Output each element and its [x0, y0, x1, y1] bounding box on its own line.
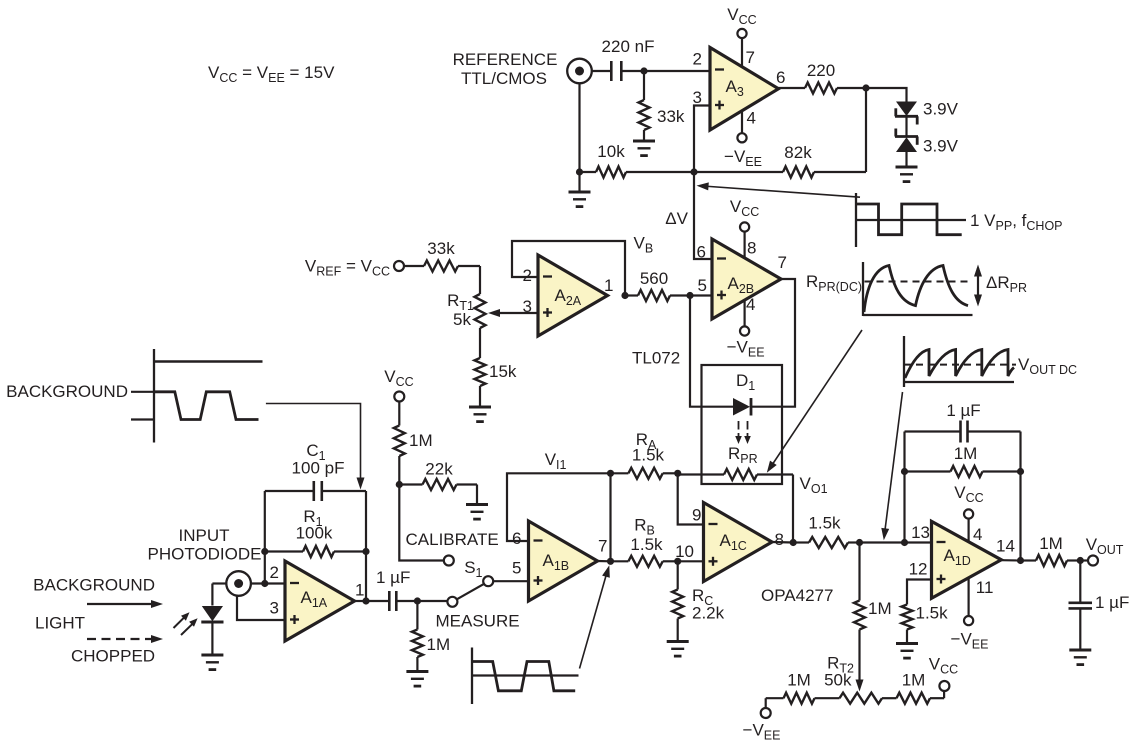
wire to A1D pin13 node [860, 541, 905, 543]
label D_1 [736, 371, 755, 393]
op-amp A3 [693, 48, 786, 131]
ground (below 1.5k) [896, 644, 918, 659]
node R_B / R_C / A1C pin10 [674, 558, 681, 565]
waveform: chopper square wave [856, 193, 966, 247]
svg-text:7: 7 [778, 253, 787, 272]
node V_OUT [1077, 557, 1084, 564]
capacitor 220 nF [602, 37, 655, 81]
svg-text:1.5k: 1.5k [632, 446, 665, 465]
svg-text:9: 9 [692, 506, 701, 525]
label V_O1 [800, 474, 828, 496]
switch S1 [457, 558, 494, 599]
svg-text:BACKGROUND: BACKGROUND [6, 382, 128, 401]
capacitor 1uF (output filter) [1069, 561, 1130, 651]
wire BNC to A1A pin2 [251, 582, 285, 584]
resistor R_C 2.2k [672, 561, 724, 641]
svg-text:MEASURE: MEASURE [436, 612, 520, 631]
node R1 left [261, 548, 268, 555]
node 1uF/1M/measure [414, 597, 421, 604]
wire to V_OUT terminal [1080, 559, 1088, 561]
potentiometer R_T1 5k [447, 266, 538, 329]
capacitor C1 [265, 481, 366, 501]
wire R_PR to V_O1 node [792, 475, 794, 543]
svg-text:8: 8 [747, 239, 756, 258]
node A1C output / V_O1 [790, 539, 797, 546]
note: supply voltages text V_CC = V_EE = 15V [208, 63, 335, 85]
node feedback left [901, 468, 908, 475]
resistor 220 (A3 output) [779, 61, 867, 94]
arrow delta R_PR (double headed) [974, 265, 982, 307]
A3 V_CC pin 7 terminal [727, 5, 756, 67]
resistor 82k (feedback) [694, 88, 866, 178]
node R_A / R_PR / A1C pin9 [674, 470, 681, 477]
ground (below 15k) [469, 407, 491, 422]
label INPUT PHOTODIODE [148, 526, 262, 564]
svg-text:10: 10 [675, 542, 694, 561]
wire between zeners [905, 116, 907, 136]
wire A2B output to D1 cathode [752, 279, 796, 407]
node 560/A2B pin5/D1 [686, 292, 693, 299]
resistor 1M (R_T2 to V_CC) [882, 671, 944, 704]
node feedback right [1017, 468, 1024, 475]
svg-text:4: 4 [746, 295, 755, 314]
node A1D output [1017, 557, 1024, 564]
terminal V_REF [394, 261, 404, 271]
svg-text:5k: 5k [453, 310, 471, 329]
svg-text:ΔV: ΔV [665, 209, 688, 228]
resistor 1M (V_CC to divider) [394, 402, 433, 485]
wire A1A pin3 to BNC shield [237, 596, 285, 620]
wire V_I1 (A1B pin6 feedback top) [507, 473, 611, 541]
light arrows from D1 to R_PR [735, 421, 751, 444]
terminal V_OUT [1088, 556, 1098, 566]
op-amp A1B [512, 521, 607, 601]
svg-text:3: 3 [693, 88, 702, 107]
label R_PR(DC) [806, 272, 862, 294]
svg-text:1M: 1M [787, 671, 811, 690]
ground (below R_C) [667, 642, 689, 657]
optocoupler box (D1 + R_PR) [702, 365, 783, 484]
svg-text:TTL/CMOS: TTL/CMOS [461, 69, 547, 88]
A2B -V_EE pin 4 terminal [727, 300, 765, 360]
svg-text:INPUT: INPUT [179, 526, 230, 545]
label REFERENCE TTL/CMOS [453, 50, 558, 88]
svg-text:1 µF: 1 µF [946, 401, 980, 420]
arrow background light [87, 600, 163, 608]
A3 -V_EE pin 4 terminal [724, 111, 762, 170]
node 220/82k/zeners [862, 84, 869, 91]
arrow chopped light (dashed) [87, 635, 163, 643]
svg-text:100 pF: 100 pF [292, 459, 345, 478]
light arrows into photodiode [174, 612, 198, 635]
wire S1 to A1B pin5 [493, 580, 528, 582]
svg-text:15k: 15k [489, 362, 517, 381]
svg-text:1M: 1M [902, 671, 926, 690]
connector input photodiode (BNC) [226, 571, 251, 596]
resistor 10k [580, 142, 695, 178]
svg-text:5: 5 [698, 276, 707, 295]
node divider [396, 481, 403, 488]
node R1 right [362, 548, 369, 555]
op-amp A1A [270, 561, 365, 641]
ground (below 22k) [466, 505, 488, 520]
svg-text:13: 13 [911, 523, 930, 542]
svg-text:6: 6 [697, 243, 706, 262]
svg-text:3: 3 [523, 297, 532, 316]
wire node to A2B pin 5 [690, 294, 712, 296]
waveform: V_OUT DC ripple [904, 336, 1016, 387]
capacitor 1uF (A1D feedback) [905, 401, 1021, 443]
wire A1B tip to node [598, 560, 611, 562]
wire A1D pin12 to 1.5k [907, 580, 932, 605]
op-amp A2A [523, 255, 614, 336]
ground (below reference BNC) [569, 172, 591, 207]
label R_T2 50k [824, 654, 854, 690]
label BACKGROUND [33, 576, 155, 595]
A1D -V_EE pin 11 terminal [951, 578, 989, 652]
svg-text:3: 3 [270, 599, 279, 618]
svg-text:1.5k: 1.5k [916, 604, 949, 623]
svg-text:1M: 1M [868, 599, 892, 618]
node BNC/10k/ground [576, 168, 583, 175]
label MEASURE [436, 612, 520, 631]
label CHOPPED [71, 647, 155, 666]
label V_OUT [1086, 535, 1124, 557]
svg-text:220 nF: 220 nF [602, 37, 655, 56]
resistor 33k (A3 pin3 bias to ground) [639, 71, 685, 141]
resistor 22k (divider to ground) [399, 460, 477, 505]
svg-text:2: 2 [693, 50, 702, 69]
svg-text:100k: 100k [296, 524, 333, 543]
resistor 1.5k (A1D pin12) [902, 604, 949, 644]
ground (below 33k) [633, 141, 655, 156]
wire C1 left down to A1A pin2 [264, 491, 266, 584]
label V_B [634, 234, 654, 256]
wire BNC shield down to 10k node [578, 83, 580, 172]
capacitor 1uF (A1A output) [376, 568, 417, 611]
wire divider to CALIBRATE terminal [399, 485, 444, 561]
node at C-220nF / 33k / A3 pin2 [640, 67, 647, 74]
label LIGHT [35, 614, 85, 633]
node A1A pin2 [261, 580, 268, 587]
svg-text:2.2k: 2.2k [692, 604, 725, 623]
resistor 1M (A1D feedback) [905, 444, 1021, 477]
op-amp A1C [675, 503, 784, 582]
wire node to A1D pin13 [905, 541, 932, 543]
wire A2A feedback (pin2 to output) [512, 241, 625, 296]
svg-text:33k: 33k [427, 239, 455, 258]
arrow from V_OUT waveform to A1D input node [881, 392, 902, 540]
svg-text:CALIBRATE: CALIBRATE [406, 530, 499, 549]
node A1D pin13 feedback [901, 539, 908, 546]
wire node down to A1C pin9 [678, 473, 704, 524]
label deltaV [665, 209, 688, 228]
svg-text:BACKGROUND: BACKGROUND [33, 576, 155, 595]
potentiometer R_T2 50k [840, 693, 883, 704]
photodiode D_PH [201, 606, 223, 655]
svg-text:OPA4277: OPA4277 [761, 586, 833, 605]
node A1A output [362, 597, 369, 604]
A1D V_CC pin 4 terminal [954, 483, 983, 543]
arrow from square wave to deltaV node [697, 182, 861, 197]
wire feedback right vertical [1019, 432, 1021, 561]
svg-text:1M: 1M [1039, 534, 1063, 553]
label V_OUT DC [1018, 355, 1077, 377]
svg-text:50k: 50k [824, 671, 852, 690]
diode D1 (LED) [733, 398, 751, 416]
label 1 V_PP f_CHOP [970, 211, 1063, 233]
label V_REF = V_CC [305, 257, 390, 279]
svg-text:5: 5 [512, 559, 521, 578]
wire feedback left vertical [903, 432, 905, 543]
svg-text:1 µF: 1 µF [376, 568, 410, 587]
svg-text:2: 2 [270, 563, 279, 582]
resistor 33k (V_REF input) [404, 239, 480, 272]
wire node to A1C pin10 [678, 560, 704, 562]
label V_I1 [545, 450, 567, 472]
terminal -V_EE (R_T2 left) [743, 708, 781, 743]
wire to MEASURE terminal [417, 600, 447, 602]
wire A1B output up to V_I1 node [609, 473, 611, 561]
ground (below output 1uF) [1069, 650, 1091, 665]
node deltaV [690, 168, 697, 175]
resistor 1M (R_T2 to -V_EE) [766, 671, 840, 709]
wire BNC left to photodiode [212, 584, 226, 606]
resistor R1 100k [265, 507, 366, 557]
node A1B output [607, 558, 614, 565]
resistor 1M (to R_T2 wiper) [854, 543, 892, 692]
label TL072 [632, 349, 680, 368]
svg-text:12: 12 [909, 560, 928, 579]
zener diode D_Z1 3.9V [895, 100, 959, 125]
wire A1D output [1001, 559, 1020, 561]
resistor 1M (output) [1021, 534, 1081, 566]
svg-text:6: 6 [776, 68, 785, 87]
svg-text:6: 6 [512, 529, 521, 548]
resistor 1M (A1A output to ground) [412, 601, 450, 672]
node 1.5k / 1M junction [856, 539, 863, 546]
wire node to D1 anode [690, 296, 733, 407]
svg-text:3.9V: 3.9V [923, 137, 959, 156]
callout wire from waveform to C1 node [266, 404, 365, 490]
arrow from chopped waveform to A1B output node [580, 565, 610, 668]
wire A1A output [355, 600, 389, 602]
svg-text:REFERENCE: REFERENCE [453, 50, 558, 69]
wire A1C output [772, 541, 793, 544]
svg-text:14: 14 [996, 537, 1015, 556]
node A2A output [621, 292, 628, 299]
svg-text:220: 220 [807, 61, 835, 80]
svg-text:4: 4 [973, 525, 982, 544]
label deltaR_PR [986, 273, 1027, 295]
wire A3 pin3 to deltaV node [694, 106, 710, 173]
resistor 560 [625, 269, 690, 301]
label C_1 100 pF [292, 441, 345, 478]
svg-text:1: 1 [355, 581, 364, 600]
A2B V_CC pin 8 terminal [730, 197, 759, 258]
svg-text:1: 1 [604, 276, 613, 295]
arrow from R_PR waveform to R_PR resistor [767, 330, 862, 473]
terminal V_CC (R_T2 right) [929, 655, 958, 692]
svg-text:22k: 22k [425, 460, 453, 479]
photoresistor R_PR [678, 469, 793, 480]
label OPA4277 [761, 586, 833, 605]
wire C1 right down to A1A output [365, 491, 367, 601]
terminal CALIBRATE [444, 556, 454, 566]
svg-text:8: 8 [775, 530, 784, 549]
resistor 15k [475, 328, 517, 407]
svg-text:1.5k: 1.5k [808, 514, 841, 533]
svg-text:1M: 1M [427, 635, 451, 654]
label R_PR [728, 444, 758, 466]
ground (below zeners) [896, 152, 918, 182]
svg-text:2: 2 [523, 266, 532, 285]
svg-text:CHOPPED: CHOPPED [71, 647, 155, 666]
waveform: R_PR ripple [863, 262, 973, 316]
svg-text:LIGHT: LIGHT [35, 614, 85, 633]
wire deltaV node down to A2B pin6 [694, 172, 712, 259]
svg-text:82k: 82k [784, 143, 812, 162]
svg-text:7: 7 [598, 537, 607, 556]
svg-text:560: 560 [640, 269, 668, 288]
resistor R_A 1.5k [611, 430, 678, 479]
svg-text:1.5k: 1.5k [630, 535, 663, 554]
terminal MEASURE [447, 597, 457, 607]
op-amp A1D [909, 521, 1015, 598]
svg-text:1M: 1M [409, 431, 433, 450]
svg-text:1 µF: 1 µF [1095, 593, 1129, 612]
terminal V_CC (calibrate divider) [384, 367, 413, 402]
svg-text:7: 7 [746, 48, 755, 67]
svg-text:4: 4 [747, 109, 756, 128]
label CALIBRATE [406, 530, 499, 549]
waveform: background light trapezoid [131, 349, 263, 443]
op-amp A2B [697, 239, 787, 320]
svg-text:10k: 10k [597, 142, 625, 161]
svg-text:33k: 33k [657, 107, 685, 126]
connector J1 reference input (BNC) [567, 59, 592, 84]
zener diode D_Z2 3.9V [895, 129, 959, 156]
ground (below 1M) [406, 672, 428, 687]
resistor 1.5k (A1C out to A1D) [793, 514, 859, 549]
ground (below photodiode) [201, 655, 223, 670]
svg-text:1M: 1M [954, 444, 978, 463]
waveform: chopped signal at A1B [472, 648, 579, 705]
wire BNC to C 220nF [592, 70, 610, 72]
svg-text:PHOTODIODE: PHOTODIODE [148, 545, 262, 564]
svg-text:3.9V: 3.9V [923, 100, 959, 119]
resistor R_B 1.5k [611, 516, 678, 567]
wire node to zener string [866, 88, 907, 102]
node V_I1 / R_A [607, 470, 614, 477]
wire node to A3 pin 2 [644, 70, 710, 72]
label BACKGROUND (waveform) [6, 382, 128, 401]
svg-text:11: 11 [976, 578, 994, 597]
svg-text:TL072: TL072 [632, 349, 680, 368]
